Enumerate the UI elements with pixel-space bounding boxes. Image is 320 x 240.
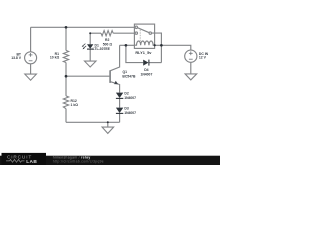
resistor R1 zigzag [63,50,68,62]
LED D1 triangle [87,44,93,49]
diode D3 bar [116,112,123,114]
node DC tap [160,44,163,47]
svg-text:http://circuitlab.com/c/3pq9e: http://circuitlab.com/c/3pq9e [53,159,104,163]
svg-text:1N4007: 1N4007 [124,111,136,115]
wire D2 to D3 [119,98,121,107]
footer logo badge [2,153,47,165]
relay coil [134,41,154,45]
transistor Q1 emitter arrowhead [114,81,118,85]
svg-text:BC547B: BC547B [122,74,136,78]
wire common to right vertical [152,33,162,63]
ground DC IN [185,74,197,80]
node R1 rail [65,26,68,29]
svg-text:500 Ω: 500 Ω [103,42,113,46]
svg-text:12 V: 12 V [199,56,207,60]
relay contact NC [135,26,137,28]
transistor Q1 emitter [110,82,119,93]
wire bottom run [66,121,120,123]
ground battery [25,74,37,80]
wire R12 bottom [65,109,67,123]
svg-text:1N4007: 1N4007 [140,72,152,76]
diode D2 bar [116,97,123,99]
svg-text:Q1: Q1 [123,70,128,74]
svg-text:D2: D2 [124,92,128,96]
logo resistor glyph [6,159,25,162]
resistor R2 zigzag [101,31,113,36]
svg-text:13.8 V: 13.8 V [11,56,22,60]
wire base [66,75,109,77]
wire R2 right to relay [113,32,134,34]
node coil right terminal [154,44,156,46]
wire R1 drop [65,27,67,50]
ground mid bottom [102,127,114,133]
wire battery top [30,27,32,52]
svg-text:LTL-307EE: LTL-307EE [93,47,111,51]
node R2 tap [89,32,91,34]
svg-text:1N4007: 1N4007 [124,96,136,100]
relay contact NO [135,32,137,34]
transistor Q1 collector [110,45,119,70]
wire top rail [31,26,135,28]
diode D4 triangle [143,60,148,66]
relay actuation dashed link [139,30,141,42]
svg-text:1 kΩ: 1 kΩ [71,103,79,107]
node D4 coil lead [125,44,128,47]
svg-text:RLY1_5v: RLY1_5v [135,50,152,55]
battery plus minus [29,53,33,61]
transistor Q1 base bar [109,70,111,83]
node ground tee [107,121,109,123]
ground LED [85,61,97,67]
wire D4 tap vertical [126,45,143,62]
wire R1 to base node [65,63,67,77]
relay contact common [149,32,151,34]
wire coil right to DC [155,45,191,50]
relay RLY1_5v box [134,24,154,48]
battery BT circle [25,52,37,64]
diode D4 bar [148,60,150,66]
wire LED drop [89,33,91,44]
resistor R12 zigzag [63,96,68,109]
wire coil left lead [120,44,135,46]
svg-text:LAB: LAB [26,159,37,165]
wire ground stem mid [107,122,109,127]
svg-text:D3: D3 [124,107,128,111]
LED D1 cathode bar [87,48,93,50]
wire battery bottom [30,64,32,74]
wire LED cathode to ground [89,49,91,61]
source DC IN circle [185,50,197,62]
svg-text:10 kΩ: 10 kΩ [50,56,60,60]
relay switch arm [138,28,150,33]
LED D1 emission arrows [82,44,87,50]
node base [65,75,68,78]
wire R12 top [65,76,67,96]
DC IN plus minus [189,51,193,59]
wire DC bottom [190,62,192,74]
footer bar [0,156,220,165]
diode D2 triangle [116,93,123,98]
diode D3 triangle [116,108,123,113]
wire R2 left [90,32,101,34]
wire D3 to bottom [119,113,121,122]
wire D4 cathode to right [149,62,162,64]
